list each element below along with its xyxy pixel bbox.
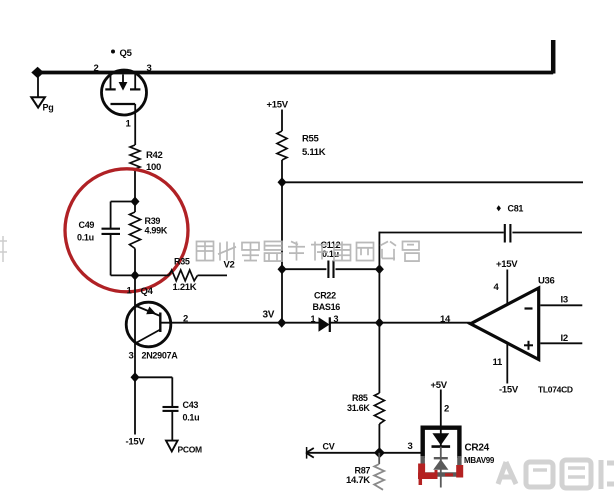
- wire: op-amp V+ supply: [494, 259, 519, 306]
- op-amp U36: [471, 276, 555, 360]
- node: below Q4: [131, 372, 140, 382]
- svg-text:11: 11: [493, 357, 503, 368]
- svg-text:CR24: CR24: [465, 443, 490, 454]
- wire: non-inverting input I2: [540, 333, 582, 344]
- transistor Q4 (2N2907A): [126, 302, 171, 347]
- svg-text:R39: R39: [145, 216, 161, 226]
- transistor Q5 (MOSFET, circle): [102, 70, 147, 115]
- svg-text:C43: C43: [183, 400, 199, 410]
- capacitor C43: [163, 400, 200, 440]
- svg-text:Q4: Q4: [141, 286, 154, 297]
- wire: 3V node to CR22: [282, 322, 319, 324]
- wire: parallel branch connectors: [111, 202, 135, 276]
- svg-text:2: 2: [444, 404, 449, 415]
- node: CV junction: [374, 447, 385, 458]
- svg-text:1.21K: 1.21K: [173, 282, 197, 293]
- node: junction above (C81/C112 tie): [375, 264, 384, 274]
- svg-text:3: 3: [147, 63, 152, 74]
- wire: R42 to node: [134, 169, 136, 202]
- node: junction at left end of top rail: [31, 67, 44, 78]
- wire: +5V down to CR24: [440, 390, 442, 428]
- node: 3V junction: [277, 318, 286, 328]
- component box CR24: [423, 428, 460, 475]
- wire: CR22 to op-amp output node: [330, 322, 380, 324]
- svg-text:U36: U36: [538, 276, 555, 287]
- watermark: faint large glyphs bottom right: [498, 460, 614, 489]
- svg-text:R42: R42: [146, 150, 163, 161]
- svg-text:5.11K: 5.11K: [302, 147, 326, 158]
- capacitor C112: [282, 240, 379, 278]
- svg-text:R87: R87: [355, 466, 371, 476]
- svg-text:MBAV99: MBAV99: [464, 456, 495, 465]
- capacitor C81: [497, 204, 583, 243]
- svg-text:Q5: Q5: [120, 48, 133, 59]
- svg-text:CV: CV: [323, 442, 335, 452]
- svg-text:3V: 3V: [263, 310, 275, 321]
- svg-text:+15V: +15V: [267, 100, 289, 111]
- svg-text:Pg: Pg: [43, 103, 54, 113]
- resistor R42: [130, 145, 163, 173]
- label Q5 with dot marker: [111, 48, 133, 59]
- resistor R39: [130, 202, 168, 276]
- capacitor C49: [77, 220, 120, 243]
- diode CR24 bottom (faded): [433, 447, 448, 488]
- watermark: partial glyph at left edge: [0, 236, 7, 262]
- wire: CV rail with left arrow: [306, 447, 421, 459]
- wire: +15V down to R55: [281, 110, 283, 132]
- resistor R85: [347, 393, 384, 453]
- ground Pg: [31, 97, 53, 112]
- wire: node down to Q4: [134, 275, 136, 303]
- annotation: red circle highlight: [65, 169, 188, 292]
- svg-text:PCOM: PCOM: [178, 445, 203, 455]
- svg-text:I2: I2: [561, 333, 568, 344]
- svg-text:+5V: +5V: [431, 380, 448, 391]
- svg-text:0.1u: 0.1u: [77, 232, 94, 242]
- svg-text:2: 2: [94, 63, 99, 74]
- diode CR24 top (black): [432, 427, 451, 447]
- node: top of R39/C49 parallel pair: [131, 197, 140, 207]
- wire: Q4 emitter down: [134, 347, 136, 435]
- watermark: main gray text row: [197, 241, 420, 261]
- wire: Q4 base to 3V node: [160, 322, 281, 324]
- wire: stub down to Pg ground: [37, 73, 39, 97]
- node: junction at C112 tap: [278, 264, 287, 274]
- svg-text:31.6K: 31.6K: [347, 403, 370, 413]
- wire: thick main top rail: [35, 40, 553, 74]
- svg-text:C49: C49: [79, 220, 95, 230]
- diode CR22 BAS16: [311, 291, 341, 333]
- svg-text:1: 1: [311, 314, 316, 324]
- svg-text:14: 14: [440, 314, 451, 325]
- svg-text:4.99K: 4.99K: [145, 226, 168, 236]
- wire: inverting input I3: [540, 295, 582, 306]
- svg-text:TL074CD: TL074CD: [538, 385, 573, 395]
- wire: output node to op-amp: [379, 322, 470, 324]
- svg-text:3: 3: [129, 351, 134, 362]
- svg-text:C81: C81: [508, 204, 524, 214]
- wire: R55 down through junctions to 3V: [281, 160, 283, 323]
- svg-text:0.1u: 0.1u: [183, 413, 200, 423]
- svg-text:I3: I3: [561, 295, 568, 306]
- resistor R87 (faded): [346, 453, 384, 490]
- wire: Q5 gate lead down to R42: [134, 104, 136, 145]
- svg-text:CR22: CR22: [314, 291, 336, 301]
- wire: horizontal rail y182: [282, 181, 583, 183]
- svg-text:-15V: -15V: [499, 385, 519, 396]
- node: junction at y182: [278, 177, 287, 187]
- svg-text:2N2907A: 2N2907A: [142, 351, 179, 361]
- resistor R55: [277, 131, 326, 160]
- svg-text:-15V: -15V: [126, 437, 146, 448]
- svg-text:3: 3: [408, 441, 413, 452]
- resistor R35 (to V2): [135, 257, 227, 294]
- node: bottom of parallel pair: [131, 270, 140, 280]
- wire: op-amp V- supply: [493, 343, 519, 396]
- annotation: red marks around CR24 bottom: [418, 464, 460, 486]
- svg-text:+15V: +15V: [496, 259, 518, 270]
- node: op-amp output junction: [375, 318, 384, 328]
- svg-text:R35: R35: [174, 257, 190, 267]
- wire: C81 branch riser and top wire: [379, 232, 503, 323]
- svg-text:R85: R85: [352, 393, 368, 403]
- wire: branch to C43: [135, 377, 172, 406]
- ground PCOM: [166, 441, 202, 455]
- svg-text:BAS16: BAS16: [313, 302, 341, 312]
- wire: output node down to R85: [378, 323, 380, 393]
- svg-text:14.7K: 14.7K: [346, 475, 370, 486]
- svg-text:R55: R55: [302, 134, 320, 145]
- svg-text:V2: V2: [224, 260, 235, 271]
